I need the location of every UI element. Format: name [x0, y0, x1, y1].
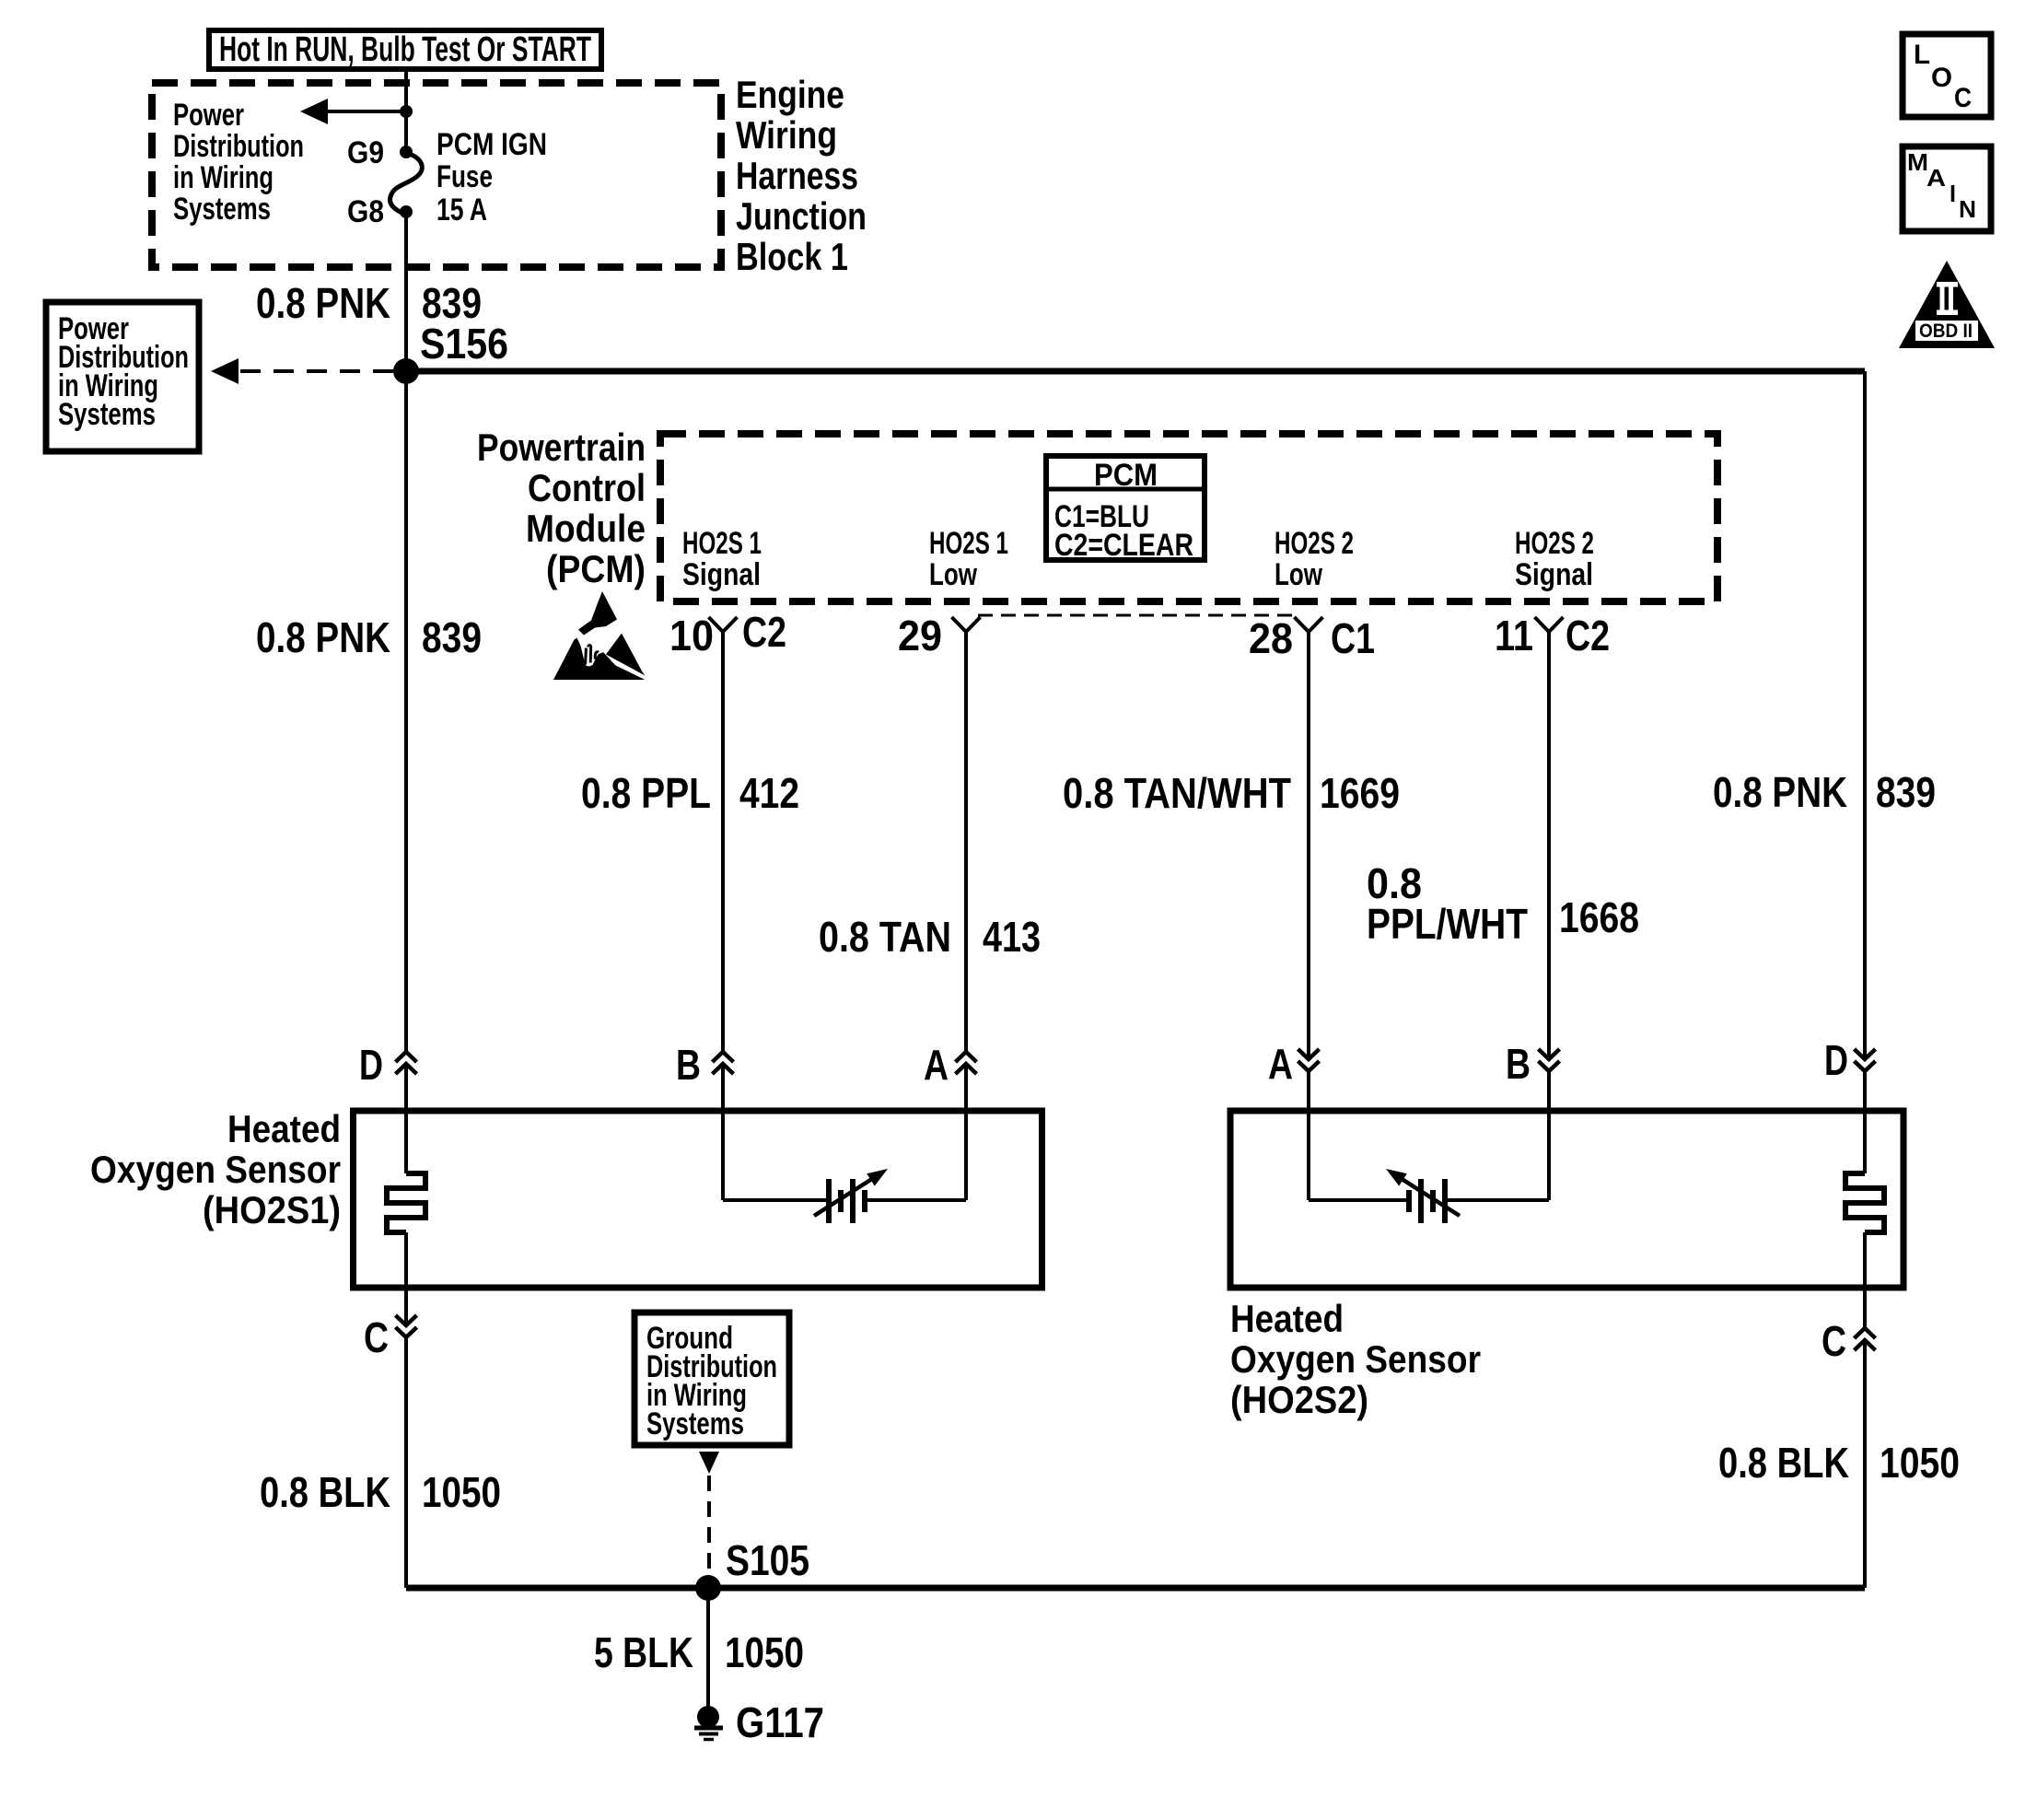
svg-text:Fuse: Fuse: [436, 159, 493, 194]
svg-text:(HO2S2): (HO2S2): [1230, 1378, 1368, 1421]
svg-text:28: 28: [1249, 614, 1293, 662]
svg-text:Junction: Junction: [736, 194, 867, 238]
pin 29 (fork): [898, 612, 981, 659]
svg-text:C: C: [364, 1313, 389, 1361]
svg-text:PPL/WHT: PPL/WHT: [1367, 900, 1528, 948]
pin 11 C2 (fork): [1495, 612, 1610, 659]
svg-text:412: 412: [739, 769, 799, 817]
svg-text:C: C: [1954, 83, 1972, 113]
svg-text:15 A: 15 A: [436, 192, 487, 227]
connector A (right, down chevrons): [1268, 1040, 1320, 1088]
svg-text:HO2S 1: HO2S 1: [929, 526, 1008, 561]
wire: HO2S2 low into box: [1307, 1071, 1310, 1200]
svg-text:1050: 1050: [422, 1468, 501, 1516]
svg-text:Module: Module: [526, 507, 646, 550]
wire: main 839 feed (top horizontal): [406, 368, 1865, 375]
svg-text:A: A: [1926, 164, 1946, 192]
arrow: branch to Power Distribution (in junction block): [300, 99, 406, 124]
pin function label: HO2S 1 Signal: [682, 526, 762, 592]
splice S156: [393, 358, 419, 384]
label: 0.8 PPL 412: [581, 769, 799, 817]
sensor cell HO2S1 (variable battery): [814, 1169, 888, 1223]
svg-text:C2: C2: [742, 608, 786, 656]
svg-text:0.8 TAN/WHT: 0.8 TAN/WHT: [1063, 769, 1291, 817]
svg-text:Power: Power: [173, 98, 244, 133]
PCM connector id box: PCM / C1=BLU / C2=CLEAR: [1046, 456, 1205, 563]
svg-text:10: 10: [669, 612, 714, 659]
svg-text:1050: 1050: [1880, 1439, 1960, 1487]
svg-text:5 BLK: 5 BLK: [594, 1628, 693, 1676]
svg-text:Signal: Signal: [1515, 557, 1593, 592]
wire: HO2S2 signal from pin 11: [1547, 632, 1551, 1056]
svg-text:C: C: [1822, 1317, 1846, 1365]
connector B (right, down chevrons): [1506, 1040, 1560, 1088]
label: 0.8 PNK 839 (top): [256, 279, 482, 327]
svg-text:0.8 TAN: 0.8 TAN: [819, 913, 951, 961]
wire: ignition feed from Hot In RUN label down to fuse: [404, 68, 408, 152]
wire: heater feed inside HO2S2: [1863, 1071, 1867, 1173]
OBD II symbol (triangle): [1899, 261, 1995, 348]
caption: Heated Oxygen Sensor (HO2S1): [90, 1107, 341, 1231]
terminal G9: [400, 146, 413, 158]
svg-text:1669: 1669: [1320, 769, 1400, 817]
wire: heater to ground pin C: [404, 1232, 408, 1324]
dashed arrow: to Power Distribution callout: [211, 358, 393, 384]
arrowhead below ground callout: [699, 1452, 719, 1474]
wire: 839 down to HO2S2 (right vertical): [1863, 371, 1867, 1056]
wire: ground bus (bottom horizontal): [406, 1585, 1865, 1592]
connector C (right, up chevrons): [1822, 1317, 1876, 1365]
connector B (left, up chevrons): [676, 1041, 734, 1089]
wire: 839 down to HO2S1 (left vertical): [404, 371, 408, 1052]
heater element HO2S2: [1845, 1173, 1884, 1232]
svg-text:B: B: [1506, 1040, 1531, 1088]
svg-text:0.8 PNK: 0.8 PNK: [256, 279, 390, 327]
svg-text:1050: 1050: [725, 1628, 804, 1676]
wire: ground return left vertical: [404, 1337, 408, 1588]
svg-text:Distribution: Distribution: [173, 129, 304, 164]
svg-text:Block 1: Block 1: [736, 235, 848, 278]
svg-text:in Wiring: in Wiring: [173, 160, 274, 195]
fuse F1: PCM IGN 15 A: [390, 153, 422, 215]
svg-text:0.8 PNK: 0.8 PNK: [256, 613, 390, 661]
svg-text:HO2S 2: HO2S 2: [1275, 526, 1354, 561]
ground G117: [694, 1698, 824, 1746]
svg-text:Low: Low: [929, 557, 977, 592]
svg-text:839: 839: [1876, 768, 1936, 816]
pin 28 C1 (fork): [1249, 614, 1375, 662]
wire: HO2S1 low from pin 29: [964, 632, 968, 1052]
dashed link to splice S105: [707, 1476, 711, 1577]
svg-text:OBD II: OBD II: [1919, 321, 1973, 342]
label: 0.8 TAN 413: [819, 913, 1041, 961]
junction dot (branch): [400, 105, 413, 118]
callout box: Power Distribution in Wiring Systems: [46, 302, 199, 451]
terminal G8: [400, 205, 413, 218]
svg-text:D: D: [359, 1041, 383, 1089]
wire: sensor element leads HO2S1: [723, 1198, 966, 1202]
svg-text:29: 29: [898, 612, 942, 659]
svg-text:Hot In RUN, Bulb Test Or START: Hot In RUN, Bulb Test Or START: [219, 30, 591, 69]
svg-text:B: B: [676, 1041, 701, 1089]
connector C (left, down chevrons): [364, 1313, 417, 1361]
svg-text:M: M: [1907, 148, 1928, 176]
connector edge (thin dashed line between pins 29 and 28): [978, 614, 1297, 617]
caption: Engine Wiring Harness Junction Block 1: [736, 73, 867, 278]
caption: Powertrain Control Module (PCM): [477, 426, 646, 590]
svg-text:Heated: Heated: [227, 1107, 341, 1150]
svg-text:Heated: Heated: [1230, 1297, 1344, 1340]
svg-text:HO2S 1: HO2S 1: [682, 526, 762, 561]
LOC reference box: [1903, 34, 1991, 117]
svg-text:Harness: Harness: [736, 154, 858, 197]
heater element HO2S1: [387, 1173, 425, 1232]
svg-text:0.8 BLK: 0.8 BLK: [260, 1468, 390, 1516]
svg-text:O: O: [1931, 63, 1952, 93]
label: 0.8 PNK 839 (right): [1713, 768, 1936, 816]
wire: HO2S2 signal into box: [1547, 1071, 1551, 1200]
label: 0.8 PNK 839 (left mid): [256, 613, 482, 661]
svg-text:S156: S156: [420, 320, 508, 367]
svg-text:Engine: Engine: [736, 73, 844, 116]
wire: circuit 839 from fuse to splice S156: [404, 212, 408, 371]
svg-text:G9: G9: [347, 135, 384, 170]
wire: sensor element leads HO2S2: [1309, 1198, 1549, 1202]
svg-text:A: A: [1268, 1040, 1293, 1088]
HO2S1 sensor box: [354, 1111, 1042, 1288]
svg-text:S105: S105: [726, 1536, 809, 1584]
PCM dashed box (Powertrain Control Module outline): [660, 434, 1717, 601]
svg-text:G117: G117: [736, 1698, 824, 1746]
caption: Heated Oxygen Sensor (HO2S2): [1230, 1297, 1481, 1421]
pin function label: HO2S 1 Low: [929, 526, 1008, 592]
label: Hot In RUN, Bulb Test Or START: [209, 30, 601, 69]
callout box: Ground Distribution in Wiring Systems: [634, 1312, 789, 1445]
wire: HO2S1 signal into box: [721, 1064, 725, 1200]
junction block J1: Engine Wiring Harness Junction Block 1 (dashed box): [152, 83, 721, 267]
svg-text:D: D: [1824, 1036, 1848, 1084]
svg-text:Low: Low: [1275, 557, 1322, 592]
svg-text:Systems: Systems: [58, 397, 156, 432]
svg-text:Oxygen Sensor: Oxygen Sensor: [1230, 1337, 1481, 1381]
connector D (left, up chevrons): [359, 1041, 417, 1089]
svg-text:Oxygen Sensor: Oxygen Sensor: [90, 1148, 341, 1191]
svg-text:Systems: Systems: [173, 192, 271, 227]
label: 0.8 PPL/WHT 1668: [1367, 859, 1639, 948]
ESD sensitive symbol: [553, 591, 646, 680]
connector D (right, down chevrons): [1824, 1036, 1876, 1084]
svg-text:L: L: [1914, 40, 1930, 70]
wire: heater to ground pin C (right): [1863, 1232, 1867, 1328]
svg-text:(PCM): (PCM): [546, 547, 646, 590]
pin function label: HO2S 2 Low: [1275, 526, 1354, 592]
svg-text:C2=CLEAR: C2=CLEAR: [1054, 528, 1193, 563]
MAIN reference box: [1903, 146, 1991, 231]
svg-text:Signal: Signal: [682, 557, 761, 592]
pin function label: HO2S 2 Signal: [1515, 526, 1594, 592]
wire: ground lead to G117: [706, 1588, 710, 1707]
svg-text:Wiring: Wiring: [736, 113, 837, 157]
sensor cell HO2S2 (variable battery): [1386, 1169, 1460, 1223]
label: 0.8 TAN/WHT 1669: [1063, 769, 1400, 817]
svg-text:413: 413: [983, 913, 1041, 961]
svg-text:0.8 PNK: 0.8 PNK: [1713, 768, 1847, 816]
pin 10 C2 (fork): [669, 608, 786, 659]
HO2S2 sensor box: [1230, 1111, 1903, 1288]
svg-text:C1: C1: [1331, 614, 1375, 662]
caption: Power Distribution in Wiring Systems (inside junction block): [173, 98, 304, 227]
svg-text:839: 839: [422, 613, 482, 661]
wire: ground return right vertical: [1863, 1340, 1867, 1588]
svg-text:HO2S 2: HO2S 2: [1515, 526, 1594, 561]
svg-text:A: A: [924, 1041, 949, 1089]
label: 5 BLK 1050: [594, 1628, 804, 1676]
svg-text:1668: 1668: [1559, 893, 1639, 941]
svg-text:N: N: [1959, 195, 1976, 223]
svg-text:G8: G8: [347, 194, 384, 229]
label: 0.8 BLK 1050 (left): [260, 1468, 501, 1516]
svg-text:Systems: Systems: [646, 1406, 744, 1441]
wire: HO2S1 signal from pin 10: [721, 632, 725, 1052]
svg-text:C2: C2: [1566, 612, 1610, 659]
svg-text:11: 11: [1495, 612, 1533, 659]
svg-text:I: I: [1950, 180, 1956, 207]
svg-text:Control: Control: [528, 466, 646, 509]
svg-text:Powertrain: Powertrain: [477, 426, 646, 469]
splice S105: [695, 1575, 721, 1601]
svg-text:PCM: PCM: [1094, 458, 1158, 493]
svg-text:(HO2S1): (HO2S1): [203, 1188, 341, 1231]
label: 0.8 BLK 1050 (right): [1718, 1439, 1960, 1487]
svg-text:PCM IGN: PCM IGN: [436, 127, 547, 162]
svg-text:0.8 PPL: 0.8 PPL: [581, 769, 711, 817]
wire: HO2S2 low from pin 28: [1307, 632, 1310, 1056]
wire: heater feed inside HO2S1: [404, 1064, 408, 1173]
wire: HO2S1 low into box: [964, 1064, 968, 1200]
connector A (left, up chevrons): [924, 1041, 977, 1089]
svg-text:0.8 BLK: 0.8 BLK: [1718, 1439, 1849, 1487]
